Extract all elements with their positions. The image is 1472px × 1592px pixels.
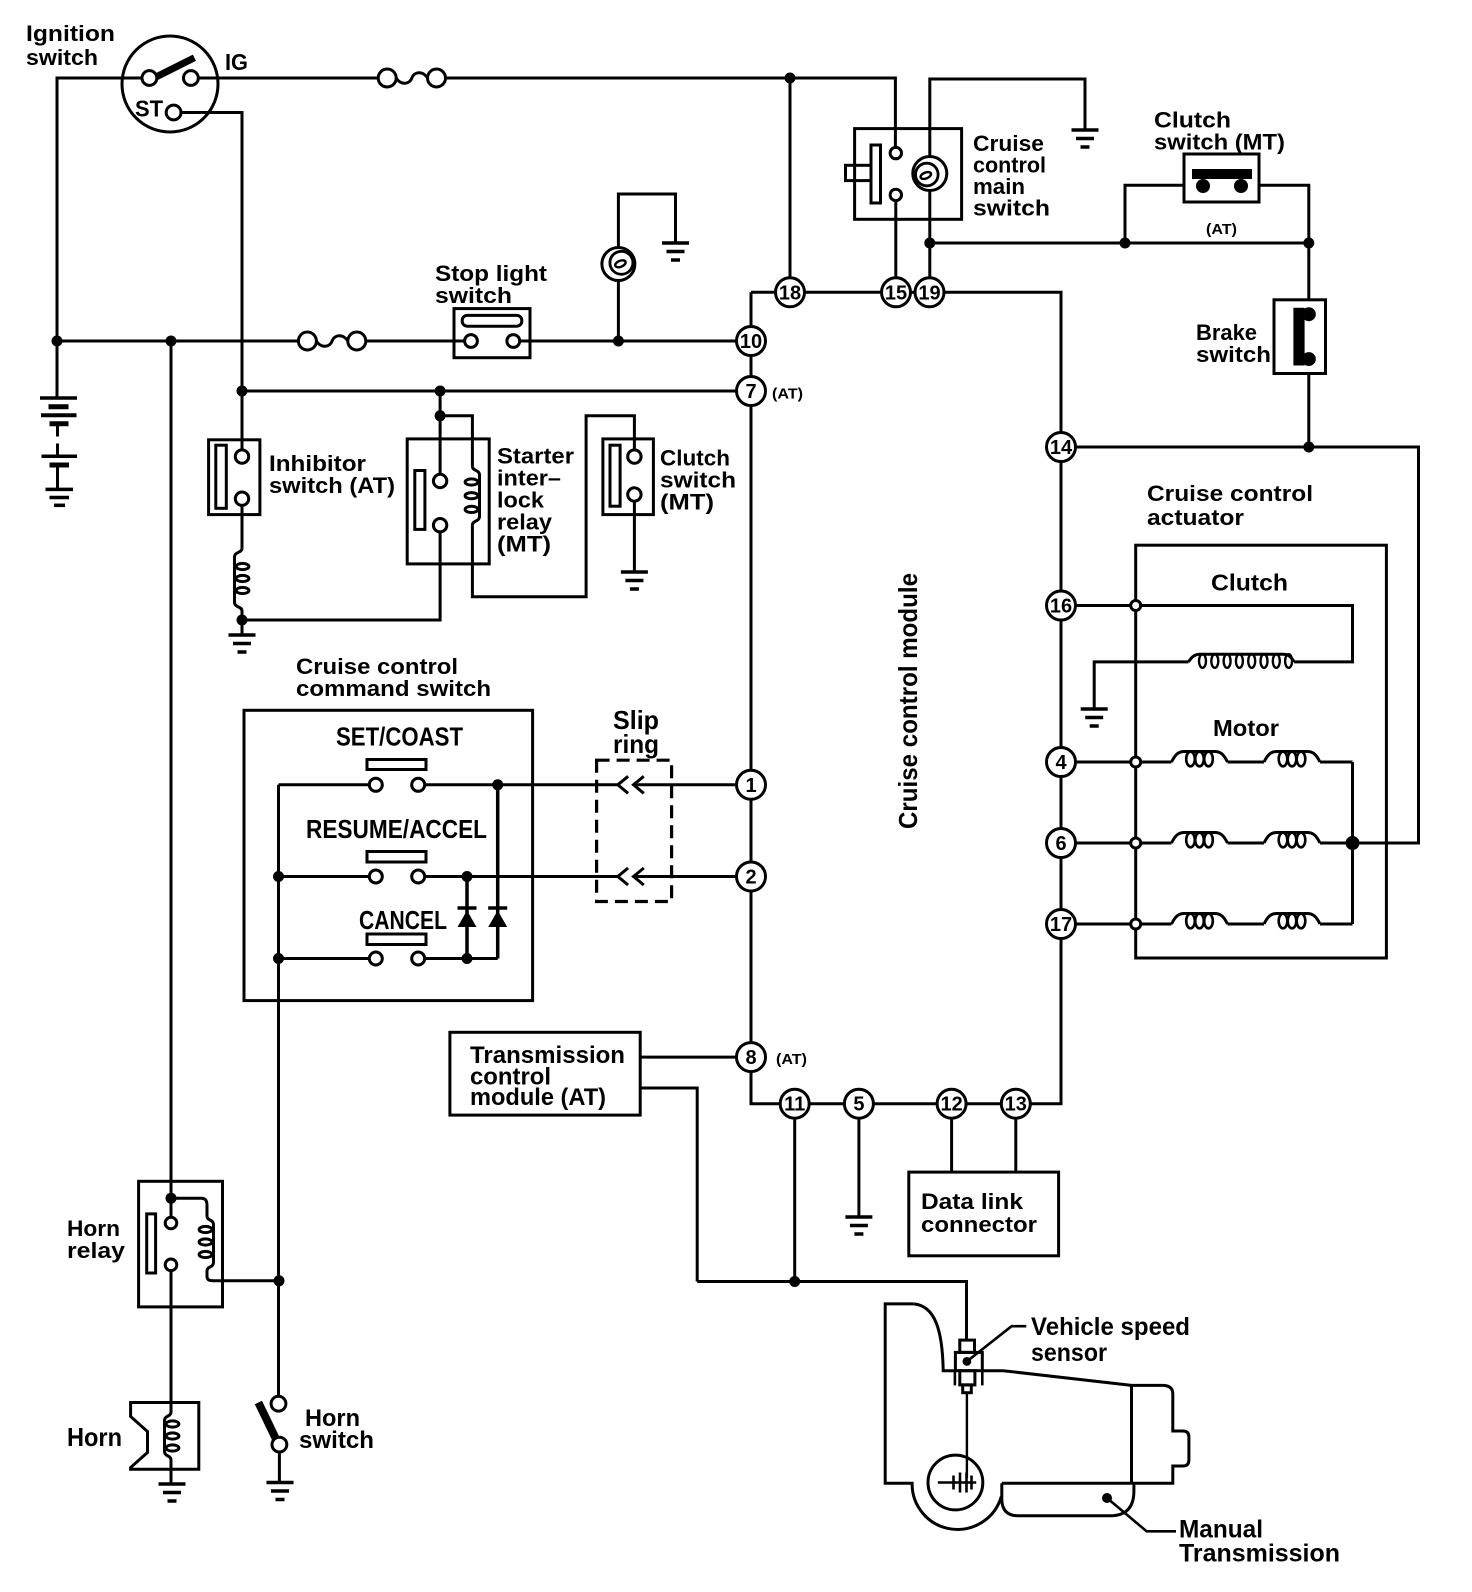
clutch coil: [1189, 654, 1295, 668]
starter interlock relay coil: [465, 466, 479, 525]
svg-text:12: 12: [940, 1094, 962, 1116]
module pin 5: [844, 1089, 873, 1118]
wire horn relay contact feed: [170, 1198, 173, 1217]
svg-text:relay: relay: [67, 1238, 126, 1263]
wire sensor to gear: [966, 1393, 968, 1478]
module bottom bus 13 to right bus: [1030, 939, 1061, 1104]
CANCEL contact L: [369, 952, 382, 965]
wire slip ring to pin 1: [634, 783, 737, 786]
wire SET/COAST right to slip ring: [425, 783, 618, 786]
module pin 1: [737, 770, 766, 799]
wire motor common vertical: [1351, 762, 1354, 924]
module bottom bus 12-13: [966, 1102, 1001, 1105]
horn switch contact bottom: [272, 1437, 287, 1452]
wire main switch lamp to ground rail: [930, 79, 1085, 157]
wire relay coil to clutch switch (MT): [472, 416, 634, 597]
svg-text:IG: IG: [225, 49, 248, 75]
label ST: [135, 96, 163, 122]
motor coil 3b: [1264, 914, 1320, 929]
battery: [40, 341, 77, 505]
horn relay contact bottom: [165, 1259, 177, 1271]
starter relay contact bottom: [433, 519, 446, 532]
horn body: [131, 1403, 199, 1470]
transmission control module box: [450, 1032, 640, 1115]
stop light switch contact L: [465, 335, 478, 348]
wire fuse to stop light switch: [366, 340, 465, 343]
CANCEL contact R: [412, 952, 425, 965]
actuator terminal 6: [1131, 838, 1141, 848]
wire bypass up left leg: [1125, 185, 1184, 243]
module pin 14: [1047, 433, 1076, 462]
junction battery rail: [52, 336, 63, 347]
svg-text:Vehicle speed: Vehicle speed: [1031, 1313, 1190, 1341]
SET/COAST contact L: [369, 778, 382, 791]
horn relay slot: [147, 1214, 156, 1273]
wire TCM lower output: [640, 1088, 697, 1282]
svg-text:switch: switch: [435, 283, 512, 308]
RESUME contact L: [369, 870, 382, 883]
wire pin 11 down: [793, 1118, 796, 1281]
svg-text:4: 4: [1055, 752, 1067, 774]
svg-text:8: 8: [745, 1047, 756, 1069]
svg-text:Transmission: Transmission: [1179, 1540, 1340, 1568]
svg-text:RESUME/ACCEL: RESUME/ACCEL: [306, 814, 487, 844]
module pin 15: [882, 278, 911, 307]
wire main switch to pin 15 gap: [895, 276, 898, 280]
wire clutch switch mid to ground: [633, 501, 636, 572]
junction CANCEL left bus: [273, 953, 284, 964]
actuator terminal 4: [1131, 757, 1141, 767]
label Cruise control actuator: [1147, 481, 1313, 530]
horn coil: [165, 1412, 179, 1460]
ground inhibitor switch: [229, 635, 256, 652]
label Horn relay: [67, 1216, 126, 1263]
vehicle speed sensor callout line: [967, 1326, 1026, 1361]
wire fuse to cruise main switch contact: [446, 78, 896, 147]
motor coil 2a: [1172, 833, 1228, 848]
ground actuator clutch: [1081, 709, 1108, 726]
module pin 13: [1001, 1089, 1030, 1118]
wire main switch lamp to pin 19: [928, 191, 931, 278]
label Brake switch: [1196, 320, 1271, 367]
wire brake switch to pin 14 line: [1307, 374, 1310, 448]
svg-text:18: 18: [779, 282, 801, 304]
wire motor row 3: [1141, 923, 1353, 926]
svg-text:connector: connector: [921, 1212, 1037, 1237]
svg-text:switch: switch: [973, 196, 1050, 221]
module pin 19: [915, 278, 944, 307]
label RESUME/ACCEL: [306, 814, 487, 844]
wire bypass junction to brake switch: [1307, 243, 1310, 300]
slip ring arrows row 1: [618, 776, 644, 885]
label CANCEL: [359, 905, 447, 935]
label Starter interlock relay (MT): [497, 444, 574, 557]
actuator terminal 17: [1131, 919, 1141, 929]
CANCEL switch bar: [367, 934, 426, 945]
svg-text:switch: switch: [299, 1427, 374, 1454]
wire pin 5 to ground: [857, 1118, 860, 1217]
label Transmission control module (AT): [470, 1042, 625, 1111]
inhibitor switch contact bottom: [235, 492, 248, 505]
wire pin7 line down to inhibitor switch: [241, 391, 244, 450]
clutch switch (MT) mid slot: [610, 445, 620, 506]
junction stop lamp tap: [613, 336, 624, 347]
svg-text:switch (MT): switch (MT): [1154, 130, 1285, 155]
starter relay contact top: [433, 474, 446, 487]
wire inhibitor contact to coil: [241, 505, 244, 548]
inhibitor switch contact top: [235, 450, 248, 463]
ground horn: [159, 1484, 186, 1501]
brake switch bar: [1293, 308, 1304, 366]
wire pin 4 to actuator: [1076, 761, 1131, 764]
svg-text:switch: switch: [26, 45, 98, 70]
label Cruise control command switch: [296, 654, 491, 701]
wire pin 17 to actuator: [1076, 923, 1131, 926]
module pin 11: [780, 1089, 809, 1118]
junction CANCEL diode1: [462, 953, 473, 964]
speedometer gear shaft: [938, 1473, 976, 1493]
label Manual Transmission: [1179, 1516, 1340, 1568]
stop light switch box: [454, 309, 530, 358]
junction main switch output: [924, 238, 935, 249]
label (AT) bypass: [1206, 221, 1237, 238]
wire stop circuit into pin 10: [750, 356, 753, 377]
ground horn switch: [267, 1483, 294, 1500]
wire speed sensor line: [697, 1282, 966, 1341]
wire main switch bottom contact to pin 15: [894, 201, 897, 278]
stop light switch contact R: [507, 335, 520, 348]
ignition contact B: [142, 71, 157, 86]
svg-text:ST: ST: [135, 96, 163, 122]
wire pin 6 to actuator: [1076, 842, 1131, 845]
svg-text:Cruise control: Cruise control: [1147, 481, 1313, 506]
module left bus 7 to 1: [750, 406, 753, 771]
junction brake to pin14 line: [1303, 442, 1314, 453]
junction bypass right: [1303, 238, 1314, 249]
clutch switch (MT) mid box: [603, 439, 654, 515]
wire battery node to stop light fuse: [57, 340, 298, 343]
wire horn relay coil to horn switch: [207, 1271, 279, 1281]
SET/COAST contact R: [412, 778, 425, 791]
wire slip ring to pin 2: [634, 875, 737, 878]
horn relay box: [139, 1181, 223, 1307]
motor coil 1b: [1264, 752, 1320, 767]
module bottom bus 11-5: [809, 1102, 844, 1105]
svg-text:Horn: Horn: [67, 1422, 122, 1452]
wire junction down to pin 18: [789, 78, 792, 277]
wire ignition ST contact to vertical drop: [181, 113, 242, 392]
svg-text:1: 1: [745, 775, 756, 797]
wire RESUME right to slip ring: [425, 875, 618, 878]
inhibitor switch coil: [235, 548, 249, 611]
svg-text:19: 19: [918, 282, 940, 304]
slip ring dashed box: [597, 760, 672, 901]
cruise control actuator box: [1136, 545, 1387, 958]
vehicle speed sensor dot: [963, 1357, 972, 1366]
wire inhibitor coil to ground: [241, 611, 244, 635]
ignition contact ST: [166, 105, 181, 120]
label Inhibitor switch (AT): [269, 451, 395, 498]
ground clutch switch mid: [621, 572, 648, 589]
module right bus 4-16: [1060, 620, 1063, 748]
cruise main switch indicator lamp: [913, 157, 947, 191]
module left bus 2 to 8: [750, 891, 753, 1043]
diode branch 1: [465, 877, 469, 959]
module pin 16: [1047, 591, 1076, 620]
svg-text:Motor: Motor: [1213, 715, 1279, 741]
svg-text:14: 14: [1050, 437, 1073, 459]
motor coil 2b: [1264, 833, 1320, 848]
label IG: [225, 49, 248, 75]
data link connector box: [909, 1172, 1059, 1256]
label Clutch switch (MT) mid: [660, 446, 736, 515]
RESUME/ACCEL switch bar: [367, 852, 426, 863]
ground pin 5: [845, 1217, 872, 1234]
wire stop lamp leads: [618, 194, 675, 341]
clutch switch mid contact top: [628, 450, 641, 463]
svg-text:16: 16: [1050, 596, 1072, 618]
wire clutch coil to ground: [1094, 662, 1188, 709]
wire horn to ground: [170, 1469, 173, 1484]
label (AT) pin8: [776, 1051, 807, 1068]
wire CANCEL right: [425, 957, 498, 960]
svg-text:(AT): (AT): [776, 1051, 807, 1068]
wire CANCEL left: [279, 957, 370, 960]
svg-text:(AT): (AT): [1206, 221, 1237, 238]
svg-text:11: 11: [784, 1094, 805, 1116]
module pin 2: [737, 862, 766, 891]
module right bus 6-4: [1060, 777, 1063, 829]
ground cruise main switch: [1072, 130, 1099, 147]
module top bus 18-15: [805, 291, 882, 294]
svg-text:2: 2: [745, 867, 756, 889]
junction RESUME left bus: [273, 871, 284, 882]
svg-text:actuator: actuator: [1147, 505, 1244, 530]
wire horn relay coil lead: [171, 1198, 207, 1216]
ignition contact IG: [184, 71, 199, 86]
module pin 7: [737, 377, 766, 406]
RESUME contact R: [412, 870, 425, 883]
diode branch 2: [496, 785, 500, 959]
junction pin11 speed sensor line: [789, 1276, 800, 1287]
svg-text:ring: ring: [613, 729, 659, 759]
wire motor row 1: [1141, 761, 1353, 764]
module pin 4: [1047, 748, 1076, 777]
inhibitor switch box: [209, 440, 260, 515]
pin7 feed line: [242, 390, 737, 393]
junction motor common: [1346, 836, 1360, 850]
command switch left bus down to horn circuit: [277, 785, 280, 1281]
wire bypass right leg: [1259, 185, 1309, 243]
wire command bus to horn switch: [277, 1281, 280, 1397]
junction horn relay feed: [166, 1193, 177, 1204]
clutch switch (MT) bar: [1192, 169, 1252, 179]
label SET/COAST: [336, 722, 463, 752]
wire clutch loop: [1141, 606, 1353, 662]
speedometer gear circle: [928, 1455, 983, 1510]
module pin 12: [937, 1089, 966, 1118]
brake switch contact dots: [1302, 307, 1316, 321]
module left bus 8 to bottom row: [751, 1072, 780, 1104]
wire SET/COAST left: [279, 783, 370, 786]
svg-text:sensor: sensor: [1031, 1339, 1107, 1367]
svg-text:7: 7: [745, 381, 756, 403]
junction IG feed to pin 18: [785, 73, 796, 84]
junction relay coil tap: [435, 410, 446, 421]
junction bypass left: [1120, 238, 1131, 249]
horn coil leads: [170, 1403, 173, 1469]
wire pin7 line to relay contact and coil: [440, 391, 472, 474]
svg-text:Cruise control module: Cruise control module: [893, 573, 923, 829]
transmission end cover line: [1130, 1385, 1133, 1483]
fuse IG circuit: [378, 69, 445, 87]
module top bus 15-19: [911, 291, 916, 294]
module left bus 1 to 2: [750, 799, 753, 862]
label Horn: [67, 1422, 122, 1452]
clutch switch (MT) contact dots: [1196, 179, 1210, 193]
junction RESUME diode tap: [462, 871, 473, 882]
module pin 17: [1047, 910, 1076, 939]
module top bus 19 to right bus: [944, 292, 1061, 432]
vehicle speed sensor body: [955, 1340, 982, 1393]
horn relay contact top: [165, 1217, 177, 1229]
label Vehicle speed sensor: [1031, 1313, 1190, 1367]
wire rail down to horn relay: [170, 341, 173, 1198]
bell housing top curve: [914, 1304, 955, 1371]
main switch button plate: [871, 145, 881, 203]
module pin 8: [737, 1043, 766, 1072]
junction starter relay on pin7 line: [435, 386, 446, 397]
svg-text:(MT): (MT): [497, 532, 551, 557]
diode D2: [488, 908, 507, 927]
svg-text:switch: switch: [1196, 342, 1271, 367]
main switch contact bottom: [890, 189, 901, 200]
svg-text:15: 15: [885, 282, 907, 304]
label (AT) pin7: [772, 386, 803, 403]
horn relay coil: [199, 1216, 213, 1271]
wire motor row 2: [1141, 842, 1353, 845]
wire TCM to pin 8: [640, 1056, 736, 1059]
starter interlock relay box: [407, 439, 489, 564]
wire pin 16 to actuator: [1076, 604, 1131, 607]
module pin 6: [1047, 829, 1076, 858]
wire main switch output to brake switch drop: [930, 242, 1309, 245]
clutch switch (MT) box: [1184, 154, 1259, 202]
horn switch blade: [258, 1403, 276, 1440]
svg-text:(MT): (MT): [660, 490, 714, 515]
wire horn switch to ground: [278, 1452, 281, 1483]
svg-text:command switch: command switch: [296, 676, 491, 701]
motor coil 3a: [1172, 914, 1228, 929]
ignition switch body circle: [122, 36, 218, 132]
svg-text:Data link: Data link: [921, 1189, 1024, 1214]
junction inhibitor ground node: [237, 615, 248, 626]
inhibitor switch slot: [216, 445, 227, 508]
module bottom bus 5-12: [873, 1102, 937, 1105]
label Ignition switch: [26, 21, 115, 70]
svg-text:CANCEL: CANCEL: [359, 905, 447, 935]
svg-text:Ignition: Ignition: [26, 21, 115, 46]
main switch button stem: [846, 165, 872, 180]
module top bus pin10 corner: [751, 292, 776, 326]
svg-text:6: 6: [1055, 833, 1066, 855]
svg-text:13: 13: [1005, 1094, 1027, 1116]
svg-text:module (AT): module (AT): [470, 1084, 606, 1111]
label Horn switch: [299, 1405, 374, 1454]
label Motor: [1213, 715, 1279, 741]
manual transmission dot: [1102, 1493, 1112, 1503]
label Data link connector: [921, 1189, 1037, 1237]
main switch contact top: [890, 147, 901, 158]
svg-text:5: 5: [853, 1094, 864, 1116]
motor coil 1a: [1172, 752, 1228, 767]
fuse stop light circuit: [298, 332, 365, 350]
horn switch contact top: [271, 1396, 286, 1411]
junction horn relay rail: [166, 336, 177, 347]
wire IG to fuse: [198, 77, 378, 80]
module right bus 16-14: [1060, 462, 1063, 592]
manual transmission callout line: [1107, 1498, 1176, 1531]
wire horn relay to horn: [170, 1271, 173, 1403]
wire ignition IG contact to left rail down to battery node: [57, 78, 142, 341]
ignition switch blade: [146, 58, 194, 82]
cruise control command switch box: [244, 710, 533, 1000]
svg-text:switch (AT): switch (AT): [269, 473, 395, 498]
label Cruise control main switch: [973, 131, 1050, 221]
junction horn switch node: [274, 1275, 285, 1286]
wire stop light switch to pin 10: [520, 340, 737, 343]
svg-text:(AT): (AT): [772, 386, 803, 403]
wire pin 12 to data link: [950, 1118, 953, 1172]
svg-text:Clutch: Clutch: [1211, 570, 1288, 596]
transmission body: [982, 1371, 1189, 1484]
actuator terminal 16: [1131, 601, 1141, 611]
diode D1: [458, 908, 477, 927]
svg-text:17: 17: [1050, 914, 1072, 936]
manual transmission bell housing: [885, 1304, 1001, 1530]
indicator lamp at stop light circuit: [602, 248, 635, 281]
wire RESUME left: [279, 875, 370, 878]
module pin 18: [776, 278, 805, 307]
label Slip ring: [613, 705, 659, 759]
svg-text:SET/COAST: SET/COAST: [336, 722, 463, 752]
SET/COAST switch bar: [367, 760, 426, 770]
label Clutch (actuator): [1211, 570, 1288, 596]
svg-text:10: 10: [740, 331, 762, 353]
brake switch box: [1274, 300, 1326, 374]
wire pin 13 to data link: [1014, 1118, 1017, 1172]
junction SET/COAST diode tap: [492, 779, 503, 790]
module pin 10: [737, 327, 766, 356]
ground stop lamp: [662, 243, 689, 260]
wire pin 14 to actuator loop: [1076, 447, 1419, 843]
module right bus 17-6: [1060, 858, 1063, 910]
clutch switch mid contact bottom: [628, 488, 641, 501]
starter interlock relay slot: [415, 471, 425, 530]
label Stop light switch: [435, 261, 548, 308]
wire inhibitor node to starter relay contact: [242, 532, 440, 620]
label Clutch switch (MT): [1154, 108, 1285, 155]
junction ST drop on pin7 line: [237, 386, 248, 397]
stop light switch slot: [462, 315, 522, 326]
transmission oil pan: [1002, 1483, 1134, 1516]
cruise control main switch box: [855, 129, 962, 220]
